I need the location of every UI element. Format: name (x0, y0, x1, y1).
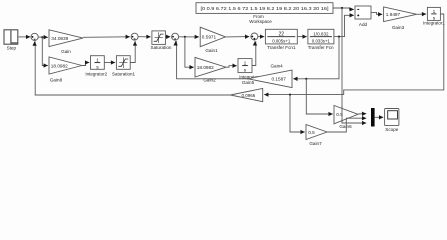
gain Gain2 18.0982 (195, 57, 226, 77)
sum1 (31, 33, 38, 40)
svg-text:Gain3: Gain3 (392, 25, 405, 30)
svg-text:Add: Add (359, 22, 368, 27)
svg-text:Workspace: Workspace (249, 19, 272, 24)
scope (385, 109, 399, 126)
gain Gain3 1.9497 (384, 7, 417, 22)
sum3 (172, 33, 179, 40)
svg-text:Gain6: Gain6 (339, 124, 352, 129)
wire Integrator1 feedback to Gain5 (264, 14, 444, 95)
svg-text:Transfer Fcn1: Transfer Fcn1 (267, 45, 296, 50)
wire node down to Gain2 (185, 37, 194, 67)
wire Gain5 to sum1 (35, 42, 231, 96)
node feedback to Gain7 (289, 94, 291, 96)
integrator Integrator2 (91, 56, 105, 71)
svg-text:Gain1: Gain1 (205, 48, 218, 53)
wire Gain to sum2 (83, 36, 130, 39)
sum4 (251, 33, 258, 40)
integrator Integrator1 (427, 7, 440, 21)
wire sum1 to Gain (38, 36, 48, 38)
svg-text:Transfer Fcn: Transfer Fcn (308, 45, 334, 50)
svg-text:Step: Step (7, 46, 17, 51)
svg-text:1/0.632: 1/0.632 (313, 32, 329, 37)
wire Saturation to sum3 (165, 36, 170, 38)
node after sum1 (41, 36, 43, 38)
wire step to sum1 (19, 36, 31, 38)
svg-text:34.0839: 34.0839 (51, 36, 68, 41)
gain Gain7 0.5 (306, 125, 327, 140)
svg-text:Saturation: Saturation (151, 45, 172, 50)
wire sum2 to Saturation (138, 36, 151, 38)
gain Gain6 0.5 (334, 106, 358, 124)
svg-text:Scope: Scope (385, 127, 398, 132)
wire Saturation1 up to sum2 (130, 41, 135, 62)
wire Gain8 to Integrator2 (82, 63, 89, 66)
transfer fcn Transfer Fcn (308, 29, 334, 44)
gain Gain8 18.0982 (49, 57, 82, 74)
add block Add (355, 6, 371, 19)
svg-text:Gain: Gain (61, 49, 71, 54)
svg-text:0.5971: 0.5971 (202, 35, 217, 40)
wire sum4 to Transfer Fcn1 (258, 36, 264, 38)
svg-text:[0 0.9 6.72 1.5 6 72 1.5 19 8.: [0 0.9 6.72 1.5 6 72 1.5 19 8.2 19 8.2 2… (201, 6, 329, 11)
gain Gain1 0.5971 (200, 27, 225, 47)
step source block (4, 30, 18, 44)
wire node down to Gain7 (290, 95, 305, 132)
wire Integrator2 to Saturation1 (104, 62, 115, 64)
from workspace block (196, 3, 333, 14)
wire node down to Gain6 (306, 79, 332, 114)
svg-text:Saturation1: Saturation1 (112, 72, 136, 77)
wire From Workspace to Add (333, 8, 354, 9)
svg-text:Gain8: Gain8 (50, 78, 63, 83)
svg-text:1.9497: 1.9497 (386, 12, 401, 17)
gain Gain4 0.1587 flipped (248, 70, 292, 88)
svg-text:Integrator2: Integrator2 (85, 72, 107, 77)
wire From Workspace down to mux (342, 8, 366, 123)
svg-text:0.0966: 0.0966 (242, 93, 256, 98)
wire Integrator up to sum4 (252, 41, 256, 65)
svg-text:0.1587: 0.1587 (272, 77, 287, 82)
wire From Workspace vertical over Gain6 (341, 106, 343, 124)
svg-text:Gain2: Gain2 (203, 78, 216, 83)
saturation Saturation1 (116, 56, 130, 70)
wire Gain7 to mux (327, 118, 366, 132)
svg-text:0.005s+1: 0.005s+1 (272, 39, 291, 44)
node after sum3 (184, 36, 186, 38)
svg-text:Gain4: Gain4 (270, 64, 283, 69)
svg-text:Gain5: Gain5 (242, 80, 255, 85)
wire Transfer Fcn out to riser (334, 15, 354, 36)
node TF out (338, 36, 340, 38)
wire mux to scope (375, 116, 384, 118)
wire Gain6 to mux (358, 113, 366, 115)
wire TF down to Gain4 (293, 37, 339, 79)
gain Gain 34.0839 (49, 30, 83, 47)
svg-text:18.0982: 18.0982 (197, 65, 214, 70)
wire sum3 to Gain1 (179, 36, 199, 38)
mux (371, 108, 375, 127)
wire Gain1 to sum4 (226, 36, 250, 38)
svg-text:Gain7: Gain7 (309, 141, 322, 146)
wire Add to Gain3 (371, 12, 382, 14)
sum2 (131, 33, 138, 40)
svg-text:0.033s+1: 0.033s+1 (312, 39, 331, 44)
node From Workspace branch (341, 7, 343, 9)
wire Transfer Fcn1 to Transfer Fcn (297, 36, 306, 38)
wire Gain4 to sum3 (176, 41, 248, 79)
svg-text:18.0982: 18.0982 (51, 63, 68, 68)
wire node down to Gain8 (42, 37, 48, 65)
node on Gain4 feed (305, 78, 307, 80)
wire Gain3 to Integrator1 (417, 13, 426, 15)
wire Gain2 to Integrator (226, 66, 237, 68)
integrator Integrator (238, 59, 252, 74)
svg-text:Integrator1: Integrator1 (423, 21, 445, 26)
svg-text:0.5: 0.5 (308, 130, 315, 135)
saturation Saturation (152, 31, 166, 45)
gain Gain5 0.0966 flipped (231, 88, 263, 101)
transfer fcn Transfer Fcn1 (265, 29, 297, 44)
